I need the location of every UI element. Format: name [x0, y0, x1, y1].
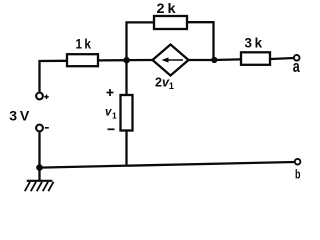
svg-text:b: b	[295, 168, 301, 182]
resistor 1k body	[67, 54, 98, 66]
wire: node to dependent source	[127, 59, 154, 61]
dependent source 2v1 diamond	[153, 45, 189, 76]
wire: minus terminal down to bottom node	[38, 132, 40, 168]
arrow inside dependent source	[165, 59, 183, 61]
svg-text:v: v	[105, 107, 112, 119]
resistor 2k body	[154, 16, 187, 29]
wire: right node to 3k resistor	[214, 58, 240, 61]
wire: left corner to 1k resistor	[40, 61, 67, 92]
voltage source 3V minus terminal	[36, 125, 43, 132]
svg-text:3 k: 3 k	[245, 35, 263, 51]
wire: 1k to node	[99, 59, 127, 62]
plus sign of v1	[107, 92, 114, 94]
resistor v1 body (vertical)	[121, 95, 133, 131]
voltage source 3V plus terminal	[36, 93, 43, 100]
plus sign of source	[44, 96, 48, 98]
wire: dependent source to right node	[188, 59, 215, 61]
wire: top node down to resistor v1	[125, 60, 127, 95]
svg-text:a: a	[293, 58, 301, 76]
svg-text:1: 1	[112, 111, 117, 121]
minus sign of source	[45, 127, 49, 129]
wire: bottom rail	[40, 162, 296, 168]
wire: top loop left vertical and top-left horizontal	[127, 22, 155, 60]
svg-text:1 k: 1 k	[76, 36, 92, 52]
terminal b circle	[295, 159, 301, 165]
wire: node to ground	[38, 168, 40, 181]
svg-text:2 k: 2 k	[157, 0, 176, 16]
svg-text:2v1: 2v1	[155, 76, 174, 92]
wire: top loop right horizontal and right vertical	[187, 22, 214, 60]
ground symbol	[25, 181, 54, 191]
svg-text:3 V: 3 V	[9, 107, 30, 123]
node junction dot left	[123, 57, 129, 63]
terminal a circle	[294, 55, 300, 61]
node junction dot right	[211, 57, 217, 63]
minus sign of v1	[108, 128, 115, 130]
node junction dot bottom-left	[36, 164, 43, 171]
wire: 3k to terminal a	[271, 58, 294, 59]
resistor 3k body	[241, 52, 270, 65]
wire: resistor v1 down to bottom wire	[125, 131, 127, 166]
